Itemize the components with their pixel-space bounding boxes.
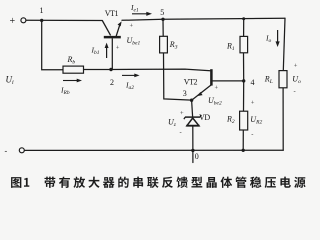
wire node 2 to VT2 collector (crosses R3 branch, no join) xyxy=(111,69,210,71)
svg-text:VD: VD xyxy=(199,113,210,122)
resistor R2 (lower divider) xyxy=(240,111,248,130)
svg-text:-: - xyxy=(294,89,296,96)
svg-text:-: - xyxy=(251,132,253,139)
node 2 xyxy=(109,68,112,71)
wire top rail left (input + to VT1 collector) xyxy=(26,19,102,21)
node 4 xyxy=(242,79,245,82)
svg-text:0: 0 xyxy=(195,152,199,161)
transistor VT2 xyxy=(192,69,243,99)
wire R3 down to node 3 corner xyxy=(164,54,192,101)
svg-text:VT2: VT2 xyxy=(184,78,198,87)
resistor R1 (upper divider) xyxy=(240,36,248,52)
wire node 3 to zener VD xyxy=(192,100,193,116)
wire node 4 to R2 xyxy=(243,81,245,111)
resistor R3 (zener feed) xyxy=(160,36,168,53)
wire VD to node 0 with stub xyxy=(192,126,194,163)
wire R2 to bottom rail xyxy=(242,130,244,150)
svg-text:VT1: VT1 xyxy=(105,9,119,18)
wire R1 to node 4 xyxy=(243,53,245,81)
svg-text:1: 1 xyxy=(40,6,44,15)
wire bottom rail (0 V return) xyxy=(24,149,283,151)
zener diode VD xyxy=(184,115,202,126)
caption figure title 图1 带有放大器的串联反馈型晶体管稳压电源 xyxy=(11,177,306,188)
svg-text:+: + xyxy=(180,110,184,117)
svg-text:+: + xyxy=(10,16,16,27)
current arrow I_a2 xyxy=(122,74,140,78)
svg-text:3: 3 xyxy=(183,89,187,98)
input terminal + (top left) xyxy=(21,18,26,23)
wire top rail junction down to R1 xyxy=(243,19,245,37)
svg-text:+: + xyxy=(294,62,298,69)
junction R2 / bottom rail xyxy=(242,149,245,152)
wire RL bottom to bottom rail xyxy=(282,88,284,150)
svg-text:4: 4 xyxy=(251,78,255,87)
svg-text:-: - xyxy=(5,147,8,156)
wire node 5 to R3 xyxy=(162,19,164,36)
node 1 xyxy=(40,19,43,22)
resistor Rb xyxy=(63,66,84,73)
node 3 xyxy=(190,99,193,102)
current arrow I_b1 xyxy=(105,43,109,58)
svg-text:-: - xyxy=(180,130,182,137)
wire right edge down to RL xyxy=(283,18,285,70)
junction top rail / R1 xyxy=(242,17,245,20)
wire top rail right (VT1 emitter to top-right corner) xyxy=(122,18,285,20)
resistor RL (load) xyxy=(279,71,287,88)
svg-text:+: + xyxy=(116,45,120,52)
transistor VT1 xyxy=(102,21,121,70)
svg-text:5: 5 xyxy=(160,8,164,17)
svg-text:+: + xyxy=(215,85,219,92)
current arrow I_Rb xyxy=(63,79,82,83)
wire Rb to node 2 xyxy=(84,69,112,71)
wire node 1 down to Rb xyxy=(42,20,63,69)
node 5 xyxy=(161,18,164,21)
node 0 xyxy=(191,149,194,152)
svg-text:2: 2 xyxy=(110,78,114,87)
svg-text:+: + xyxy=(251,100,255,107)
svg-text:+: + xyxy=(130,23,134,30)
input terminal - (bottom left) xyxy=(19,148,24,153)
